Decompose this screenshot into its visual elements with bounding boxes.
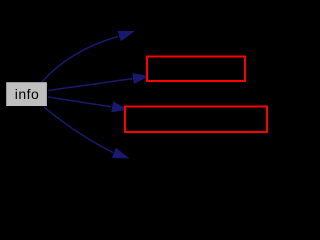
arrowhead: top edge xyxy=(118,31,133,40)
wire: edge from info to top node xyxy=(41,37,118,84)
node: hidden bottom box xyxy=(130,146,230,172)
wire: edge from info to red box 2 xyxy=(48,97,111,107)
node: red box 2 xyxy=(125,107,267,133)
wire: edge from info to bottom node xyxy=(44,107,113,153)
arrowhead: bottom edge xyxy=(113,149,128,159)
arrowhead: edge to red box 2 xyxy=(112,102,127,112)
node: red box 1 xyxy=(147,57,245,82)
node: info box xyxy=(6,82,47,106)
wire: edge from info to red box 1 xyxy=(48,79,132,91)
arrowhead: edge to red box 1 xyxy=(133,74,148,84)
svg-text:info: info xyxy=(15,86,40,102)
node: hidden top box xyxy=(136,20,236,46)
